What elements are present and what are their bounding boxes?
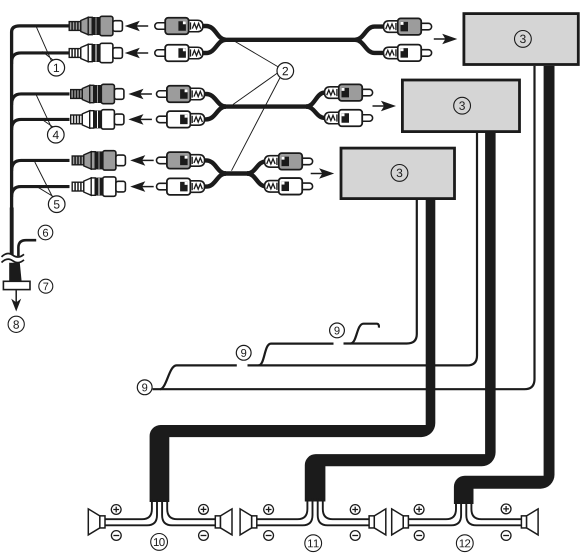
insert arrow at jack 1 xyxy=(125,21,149,32)
wire 9B curled tip xyxy=(259,344,334,366)
label 2 xyxy=(277,63,294,80)
label 1 xyxy=(48,59,65,76)
wire xyxy=(355,27,384,40)
wire: row 3 stereo cable run xyxy=(224,171,249,175)
wire xyxy=(306,93,326,107)
wire: lead to jack 2 xyxy=(12,53,70,64)
wire xyxy=(203,40,226,53)
label 1 callout lines xyxy=(36,27,54,62)
label 9C xyxy=(137,380,152,395)
insert arrow at box 1 xyxy=(434,34,458,45)
wire: row 1 stereo cable run xyxy=(224,38,357,42)
label 10 xyxy=(151,534,168,551)
label 6 xyxy=(38,225,53,240)
insert arrow at jack 5 xyxy=(130,155,154,166)
speaker 11 left xyxy=(240,509,257,535)
label 3 on unit B xyxy=(454,97,471,114)
wire: cable bundle below joint xyxy=(10,208,14,256)
wire: lead to jack 3 xyxy=(12,94,70,105)
plug 3 right (gray male RCA) xyxy=(325,84,373,101)
label 12 xyxy=(456,535,473,552)
wire xyxy=(247,174,266,187)
plug 4 left (white male RCA) xyxy=(157,111,205,128)
jack 1 (gray female RCA) xyxy=(69,16,122,35)
plug 1 right (gray male RCA) xyxy=(384,18,432,34)
arrow to item 8 xyxy=(11,290,21,311)
jack 3 (gray female RCA) xyxy=(71,84,124,103)
insert arrow at box 2 xyxy=(373,101,397,112)
speaker 10 right xyxy=(215,509,232,535)
jack 6 (white female RCA) xyxy=(72,177,125,196)
label 9B xyxy=(236,345,251,360)
wire 9A curled tip xyxy=(351,324,379,344)
thick speaker cable from unit B to group 11 xyxy=(305,133,496,502)
connector 7 base xyxy=(3,281,30,289)
wire xyxy=(355,40,384,53)
plug 2 left (white male RCA) xyxy=(155,45,203,62)
jack 5 (gray female RCA) xyxy=(72,151,125,170)
plug 4 right (white male RCA) xyxy=(325,110,373,127)
wire: lead to jack 5 xyxy=(12,160,70,171)
wire: left cable bus + lead to jack 1 xyxy=(12,26,70,210)
wire 9C curled tip xyxy=(160,365,237,389)
label 9A xyxy=(330,323,345,338)
thick speaker cable from unit A to group 12 xyxy=(454,66,555,504)
group 10 speaker leads xyxy=(105,499,215,525)
label 3 on unit A xyxy=(515,31,532,48)
insert arrow at jack 2 xyxy=(125,48,149,59)
group 12 speaker leads xyxy=(408,501,521,525)
plus terminal marks xyxy=(111,505,121,515)
cable pair 2 (row 2 left) xyxy=(203,94,226,107)
plug 5 right (gray male RCA) xyxy=(265,153,313,170)
insert arrow at jack 4 xyxy=(128,114,152,125)
wire 6: system remote control lead xyxy=(18,240,36,256)
wire xyxy=(306,107,326,118)
speaker 12 right xyxy=(521,509,538,535)
connector 7 plug body xyxy=(9,263,21,281)
label 4 callout lines xyxy=(36,94,55,129)
jack 2 (white female RCA) xyxy=(69,43,122,62)
speaker 10 left xyxy=(88,509,105,535)
plug 6 right (white male RCA) xyxy=(265,178,313,195)
box 3 unit B xyxy=(402,80,519,132)
group 11 speaker leads xyxy=(257,498,369,525)
plug 3 left (gray male RCA) xyxy=(157,86,205,103)
plug 1 left (gray male RCA) xyxy=(155,18,203,35)
label 11 xyxy=(305,535,322,552)
label 8 xyxy=(8,316,24,332)
wire 9B from unit B xyxy=(248,133,478,365)
cable break symbol xyxy=(2,254,25,263)
plug 5 left (gray male RCA) xyxy=(157,152,205,169)
box 3 unit C xyxy=(341,148,455,199)
label 7 xyxy=(39,279,53,293)
label 3 on unit C xyxy=(391,165,408,182)
insert arrow at box 3 xyxy=(311,168,335,179)
cable pair 3 (row 3 left) xyxy=(203,160,226,173)
wire: row 2 stereo cable run xyxy=(224,104,308,108)
speaker 11 right xyxy=(369,509,386,535)
wire: lead to jack 4 xyxy=(12,119,70,130)
label 5 callout lines xyxy=(35,162,55,198)
jack 4 (white female RCA) xyxy=(71,110,124,129)
wire xyxy=(203,107,226,120)
wire 9A from unit C xyxy=(344,200,417,344)
wire xyxy=(203,174,226,187)
wire xyxy=(247,161,266,173)
label 2 callout lines xyxy=(230,39,280,171)
box 3 unit A xyxy=(464,14,578,65)
minus terminal marks xyxy=(111,531,121,541)
insert arrow at jack 3 xyxy=(128,89,152,100)
thick speaker cable from unit C to group 10 xyxy=(150,200,436,502)
plug 6 left (white male RCA) xyxy=(157,178,205,195)
cable pair 1 (row 1 left) xyxy=(203,26,226,40)
wire 9C from unit A xyxy=(153,66,535,389)
plug 2 right (white male RCA) xyxy=(384,45,432,62)
wire: lead to jack 6 xyxy=(12,187,70,197)
label 5 xyxy=(48,196,65,213)
label 4 xyxy=(48,126,65,143)
insert arrow at jack 6 xyxy=(130,181,154,192)
speaker 12 left xyxy=(392,509,409,535)
